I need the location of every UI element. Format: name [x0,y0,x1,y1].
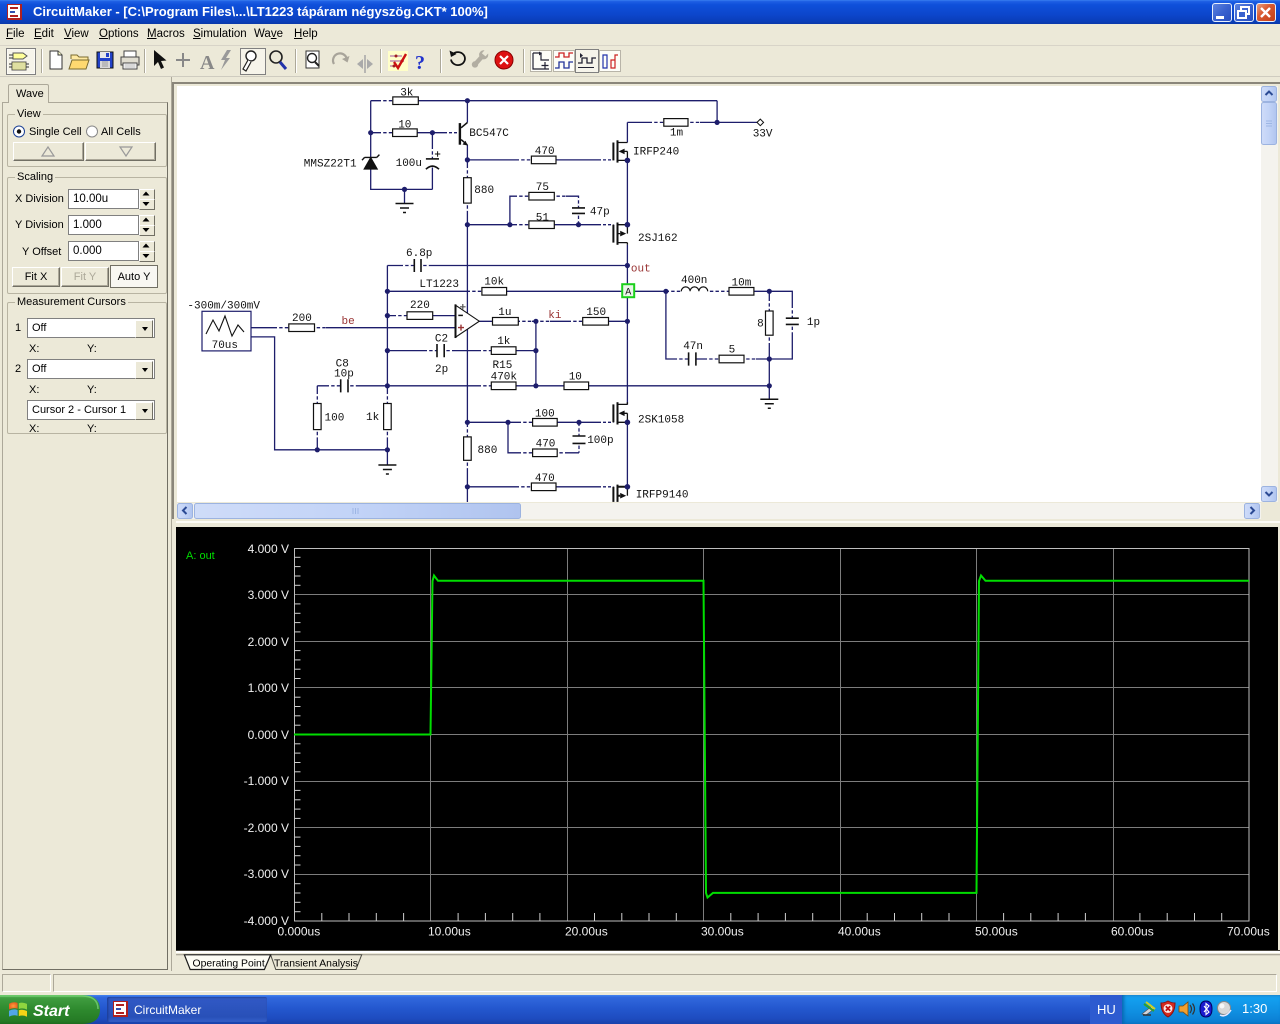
wire collector [466,101,468,123]
wire C8 100 column [316,386,318,450]
scope 2: multi waveform [554,51,575,72]
wire out rail [626,245,628,405]
svg-text:70.00us: 70.00us [1227,925,1270,939]
wire C8 row [317,385,387,387]
svg-text:-300m/300mV: -300m/300mV [187,301,260,313]
resistor 51 [529,221,554,229]
resistor 200 [289,324,315,332]
wire 880 column and left rail [466,160,468,502]
op-amp U1 LT1223 [456,304,480,338]
print [121,51,139,69]
inductor 400n [681,287,707,291]
probe tool (pressed) [241,49,266,75]
junction (627.4,321.3) [625,319,630,324]
junction (508,422.3) [505,420,510,425]
svg-text:470: 470 [535,146,555,158]
resistor 100 gate [533,419,558,427]
resistor 470 mid [533,449,558,457]
junction (387.4,350.6) [385,348,390,353]
scope 4: step [600,51,621,72]
junction (387.4,449.8) [385,447,390,452]
svg-text:10.00us: 10.00us [428,925,471,939]
wire 2SK1058 source rail [626,422,628,487]
transistor Q1 BC547C [459,123,468,146]
schematic area [172,82,1280,519]
svg-text:100: 100 [535,409,555,421]
browse chip button (pressed) [7,49,36,75]
tray icon: speaker [1179,1002,1195,1016]
junction (665.9,291.3) [663,289,668,294]
resistor 1k input [384,404,392,430]
wire 220 row [387,315,455,317]
svg-text:Transient Analysis: Transient Analysis [274,958,358,969]
toolbar [0,46,1280,77]
wire IRFP9140 drain down [626,502,628,505]
wire be row [251,327,456,329]
wire 1p bottom [769,324,792,359]
transistor M2 2SJ162 p-mosfet [613,223,627,245]
title bar [0,0,1280,24]
wire ground stem G1 [404,189,406,203]
resistor 1u [493,318,519,326]
wire 3k row [371,100,717,102]
wire IRFP240 source to 2SJ162 [626,160,628,224]
thumb [1262,103,1277,145]
svg-text:150: 150 [586,307,606,319]
junction (769.3,359) [767,356,772,361]
junction (627.4,160.4) [625,158,631,164]
wire 10k row [387,290,666,292]
svg-text:2p: 2p [435,364,448,376]
svg-text:880: 880 [478,445,498,457]
mirror (disabled) [357,55,373,73]
junction (627.4,486.8) [625,484,631,490]
source V1 -300m/300mV box [202,311,251,351]
svg-text:60.00us: 60.00us [1111,925,1154,939]
junction (467.4,422.3) [465,420,470,425]
junction (467.4,159.9) [465,157,470,162]
wire R15 row [387,385,769,387]
svg-text:400n: 400n [681,275,707,287]
capacitor 47n [689,352,696,365]
rotate (disabled) [333,53,347,64]
svg-text:2SJ162: 2SJ162 [638,233,678,245]
Scaling groupbox [7,177,167,294]
wire 470 bottom row [467,486,598,488]
maximize (restore) button [1234,3,1254,22]
left panel [0,77,172,971]
junction (387.4,385.8) [385,383,390,388]
svg-text:220: 220 [410,300,430,312]
svg-text:75: 75 [536,182,549,194]
svg-text:1u: 1u [498,307,511,319]
resistor 220 [407,312,433,320]
svg-text:100p: 100p [587,435,613,447]
wire junction column ki [535,321,537,386]
tray icon: ball [1218,1002,1232,1016]
junction (387.4,291.3) [385,289,390,294]
separator [380,49,382,73]
down arrow [1262,487,1277,502]
stop [495,51,513,69]
junction (769.3,385.8) [767,383,772,388]
svg-text:A: A [200,52,215,74]
save [97,52,113,68]
resistor 10k [482,288,507,296]
svg-text:0.000us: 0.000us [278,925,321,939]
system tray [1122,995,1280,1024]
net labels red [342,264,651,329]
junction (627.4,422.3) [625,420,631,426]
wire 75 branch [510,196,579,225]
resistor 3k [393,97,419,105]
ground G3 [760,399,778,408]
status bar [0,971,1280,995]
transistor M3 2SK1058 n-mosfet [613,402,627,424]
svg-text:-1.000 V: -1.000 V [244,774,289,788]
svg-text:Start: Start [33,1003,70,1020]
junction (627.4,265.5) [625,263,630,268]
taskbar [0,995,1280,1024]
wire 100u column [431,133,433,190]
junction (467.4,100.7) [465,98,470,103]
resistor 880 lower [464,437,472,460]
pin gap dashes [277,101,792,487]
wire 470 100p loop [508,422,579,453]
tabs [176,950,1280,971]
minimize button [1212,3,1232,22]
waveform [176,527,1278,950]
wire tool lightning [221,50,231,70]
svg-text:47n: 47n [683,341,703,353]
svg-text:6.8p: 6.8p [406,248,432,260]
junction (509.9,224.7) [507,222,512,227]
close button [1256,3,1276,22]
capacitor 47p [572,208,585,214]
trace A:out [294,576,1249,898]
wire 100 gate row 2SK1058 [467,421,598,423]
junction (432.4,132.7) [430,130,435,135]
ground G2 [378,465,396,474]
svg-text:47p: 47p [590,207,610,219]
resistor 880 upper [464,178,472,203]
wire ground stem G3 [768,386,770,400]
run check [388,51,408,71]
plus tool [176,53,190,67]
Fit buttons [12,267,60,287]
probe marker A [622,284,634,298]
resistor 100 input [314,404,322,430]
junction (387.4,315.6) [385,313,390,318]
app icon [7,4,23,20]
zener diode MMSZ22T1 [362,155,379,169]
svg-text:20.00us: 20.00us [565,925,608,939]
resistor 8 [766,311,774,335]
svg-text:2SK1058: 2SK1058 [638,415,684,427]
junction (317.3,449.8) [315,447,320,452]
svg-text:10k: 10k [484,277,504,289]
svg-text:A: A [625,288,631,299]
windows flag [9,1002,27,1016]
svg-text:51: 51 [536,212,550,224]
transistor M1 IRFP240 n-mosfet [613,140,627,162]
wire gate lead IRFP240 dashed [598,159,613,161]
svg-text:10m: 10m [732,277,752,289]
capacitor C2 2p [437,344,444,357]
svg-text:10p: 10p [334,369,354,381]
transistor M4 IRFP9140 p-mosfet [613,485,627,502]
junction (467.4,486.8) [465,484,470,489]
svg-text:70us: 70us [212,340,238,352]
junction (535.9,321.3) [533,319,538,324]
value labels [187,87,820,501]
y labels [244,542,289,928]
start button [0,995,100,1024]
svg-text:10: 10 [569,371,582,383]
ground G1 [396,204,414,213]
svg-text:C2: C2 [435,334,448,346]
wire bus column [386,266,388,450]
zoom tool [270,51,286,69]
wire out row to 400n 10m [666,290,769,292]
svg-text:2.000 V: 2.000 V [248,635,289,649]
svg-text:-2.000 V: -2.000 V [244,821,289,835]
wire emitter down [466,145,468,160]
resistor 10 [564,382,589,390]
resistor 10 [393,129,418,137]
junction (627.4,224.7) [625,222,631,228]
junction (769.3,291.3) [767,289,772,294]
capacitor 6.8p [414,259,421,272]
wire base lead dashed [444,132,459,134]
up arrow [1262,87,1277,102]
y minor ticks [295,557,1222,921]
svg-text:200: 200 [292,313,312,325]
wire left column [370,101,372,158]
svg-text:IRFP9140: IRFP9140 [636,490,689,502]
junction (535.9,350.6) [533,348,538,353]
svg-text:1.000 V: 1.000 V [248,681,289,695]
x labels [278,925,1270,939]
svg-text:be: be [342,316,355,328]
junction dots [315,98,772,490]
svg-text:Operating Point: Operating Point [193,958,265,969]
arrow tool [154,50,167,69]
Wave tab [8,84,49,103]
svg-text:470k: 470k [491,371,518,383]
View groupbox [7,114,167,167]
junction (404.5,189.4) [402,187,407,192]
svg-text:1m: 1m [670,127,684,139]
capacitor C8 10p [341,379,348,392]
svg-text:470: 470 [536,438,556,450]
separator [295,49,297,73]
resistor 75 [529,192,554,200]
svg-text:?: ? [415,52,425,74]
svg-text:MMSZ22T1: MMSZ22T1 [304,159,357,171]
junction (579,422.3) [576,420,581,425]
open [69,55,89,69]
svg-text:1k: 1k [497,336,511,348]
scope 1: DC op point [531,51,552,72]
wire gate lead 2SJ162 dashed [598,224,613,226]
junction (717.1,122.4) [715,120,720,125]
svg-text:A: out: A: out [186,550,215,562]
up/down buttons [13,142,84,161]
wrench (disabled) [469,48,490,70]
wire zener to bottom row [371,169,433,190]
spinners [139,189,155,209]
svg-text:10: 10 [398,119,411,131]
svg-text:100u: 100u [396,158,422,170]
svg-text:1k: 1k [366,412,380,424]
resistor 150 [583,318,609,326]
separator [41,49,43,73]
svg-text:880: 880 [474,185,494,197]
wire 10m to 1p corner [769,291,792,318]
svg-text:100: 100 [325,412,345,424]
reset [451,52,465,65]
terminal 33V [757,119,764,126]
wire source lower lead [251,337,388,450]
svg-text:out: out [631,264,651,276]
wire 47n branch [666,291,769,359]
wire top right corner down [716,101,718,123]
wire 51 row [467,224,598,226]
svg-text:ki: ki [548,310,562,322]
capacitor 100u electrolytic [426,158,439,160]
resistor R15 470k [491,382,516,390]
wire gate lead 2SK1058 dashed [598,421,613,423]
capacitor 1p [786,318,799,324]
HU language [1090,995,1122,1024]
svg-text:0.000 V: 0.000 V [248,728,289,742]
svg-text:8: 8 [757,318,764,330]
separator [523,49,525,73]
svg-text:1:30: 1:30 [1242,1001,1267,1016]
wire opamp out row [479,320,627,322]
wire 10 row [371,132,444,134]
separator [144,49,146,73]
svg-text:50.00us: 50.00us [975,925,1018,939]
svg-text:R15: R15 [493,360,513,372]
junction (578.5,224.7) [576,222,581,227]
CircuitMaker task button [107,997,267,1022]
wire C2 1k row [387,350,536,352]
junction (370.7,132.7) [368,130,373,135]
svg-text:33V: 33V [753,129,773,141]
resistor 1k feedback [491,347,516,355]
resistor 470 bottom [531,483,556,491]
tray icon: red shield [1161,1001,1175,1017]
wire 6.8p row [387,265,627,267]
svg-text:3k: 3k [400,87,414,99]
wire 8 column [768,291,770,386]
junction (535.9,385.8) [533,383,538,388]
wire 47p bottom [578,213,580,224]
svg-text:40.00us: 40.00us [838,925,881,939]
svg-text:4.000 V: 4.000 V [248,542,289,556]
svg-text:470: 470 [535,473,555,485]
menu bar [0,24,1280,46]
resistor 470 upper [531,156,556,164]
wire IRFP240 drain to 1m row [627,122,757,142]
tray icon: network [1142,1002,1155,1015]
svg-text:BC547C: BC547C [469,128,509,140]
svg-text:1p: 1p [807,317,820,329]
svg-text:3.000 V: 3.000 V [248,588,289,602]
separator [440,49,442,73]
wire 470 row [467,159,598,161]
wire gate lead IRFP9140 dashed [598,486,613,488]
capacitor 100p [573,436,586,443]
wire ground stem G2 [386,450,388,465]
zoom page [306,51,319,68]
svg-text:LT1223: LT1223 [419,279,459,291]
Measurement Cursors groupbox [7,302,167,434]
scope 3: transient (pressed) [576,50,599,73]
new [50,51,62,69]
resistor 5 [719,355,744,363]
resistor 1m [664,119,688,127]
svg-text:-3.000 V: -3.000 V [244,867,289,881]
svg-text:30.00us: 30.00us [701,925,744,939]
junction (467.4,224.7) [465,222,470,227]
svg-text:5: 5 [729,345,736,357]
svg-text:IRFP240: IRFP240 [633,146,679,158]
resistor 10m [729,288,754,296]
tray icon: bluetooth [1200,1001,1212,1017]
